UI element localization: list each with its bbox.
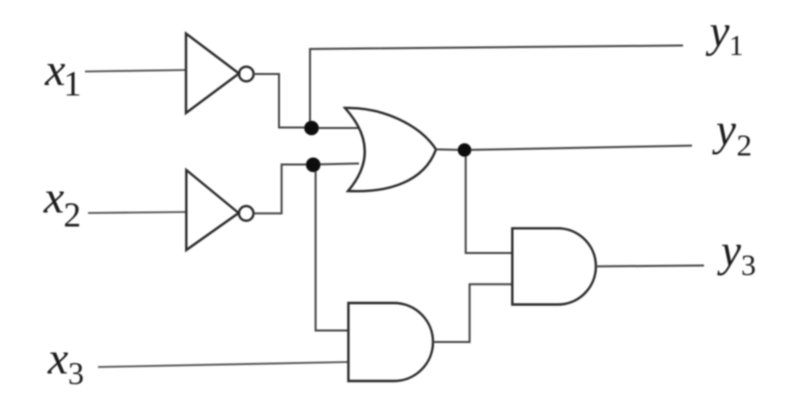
output label y3 xyxy=(717,226,756,282)
input label x3 xyxy=(47,333,84,392)
junction node A xyxy=(304,121,319,136)
output label y1 xyxy=(706,7,744,63)
wire node C to y2 xyxy=(464,146,692,150)
svg-text:x: x xyxy=(47,333,69,384)
input label x1 xyxy=(44,44,82,104)
wire OR output to node C xyxy=(436,148,464,151)
svg-text:2: 2 xyxy=(737,128,753,163)
svg-text:y: y xyxy=(706,7,730,57)
wire AND1 output to AND2 input 2 xyxy=(433,284,512,342)
junction node B xyxy=(306,158,321,173)
svg-text:1: 1 xyxy=(729,30,744,62)
svg-text:y: y xyxy=(712,105,736,155)
or-gate U1 xyxy=(345,108,436,191)
svg-text:1: 1 xyxy=(64,64,82,104)
wire x3 to AND1 input 2 xyxy=(98,362,348,367)
svg-text:x: x xyxy=(43,172,65,223)
wire x1 to NOT1 xyxy=(85,70,186,72)
wire node A to OR input 1 xyxy=(312,127,360,129)
and-gate U3 xyxy=(512,228,596,304)
junction node C xyxy=(458,143,472,157)
wire node C down to AND2 input 1 xyxy=(466,150,513,253)
svg-text:3: 3 xyxy=(68,355,84,391)
svg-text:y: y xyxy=(717,226,741,276)
wire node A up to y1 line xyxy=(310,46,683,129)
svg-text:3: 3 xyxy=(741,249,756,282)
wire node B down to AND1 input 1 xyxy=(316,165,349,331)
wire node B to OR input 2 xyxy=(313,164,359,165)
svg-text:2: 2 xyxy=(64,196,82,235)
and-gate U2 xyxy=(348,303,433,381)
wire NOT2 output to node B xyxy=(254,165,313,214)
wire NOT1 output to node A xyxy=(254,74,312,128)
input label x2 xyxy=(43,172,81,235)
inverter NOT2 bubble xyxy=(239,206,254,221)
wire x2 to NOT2 xyxy=(88,212,186,213)
inverter NOT1 bubble xyxy=(239,67,254,82)
inverter NOT1 triangle xyxy=(186,34,239,114)
output label y2 xyxy=(712,105,752,163)
inverter NOT2 triangle xyxy=(186,170,238,250)
wire AND2 output to y3 xyxy=(596,265,704,268)
